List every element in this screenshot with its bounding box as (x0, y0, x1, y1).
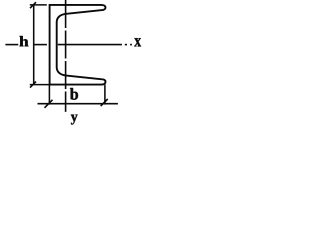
label y (71, 115, 78, 125)
label b (70, 88, 78, 100)
dimension b extension left (web edge extended) (48, 85, 50, 105)
dimension h line (33, 5, 35, 85)
dimension h extension bottom (30, 84, 50, 86)
label h (20, 36, 29, 46)
dimension h extension top (30, 4, 47, 6)
label x (134, 38, 141, 46)
dimension b extension right (flange tip extended) (104, 85, 106, 105)
axis x line (5, 44, 131, 46)
dimension b tick right (101, 99, 108, 106)
axis y line (65, 0, 67, 112)
dimension b tick left (45, 100, 53, 108)
dimension b line (38, 103, 118, 105)
dimension h tick bottom (30, 82, 36, 88)
channel section outline (50, 5, 106, 85)
dimension h tick top (30, 2, 36, 8)
